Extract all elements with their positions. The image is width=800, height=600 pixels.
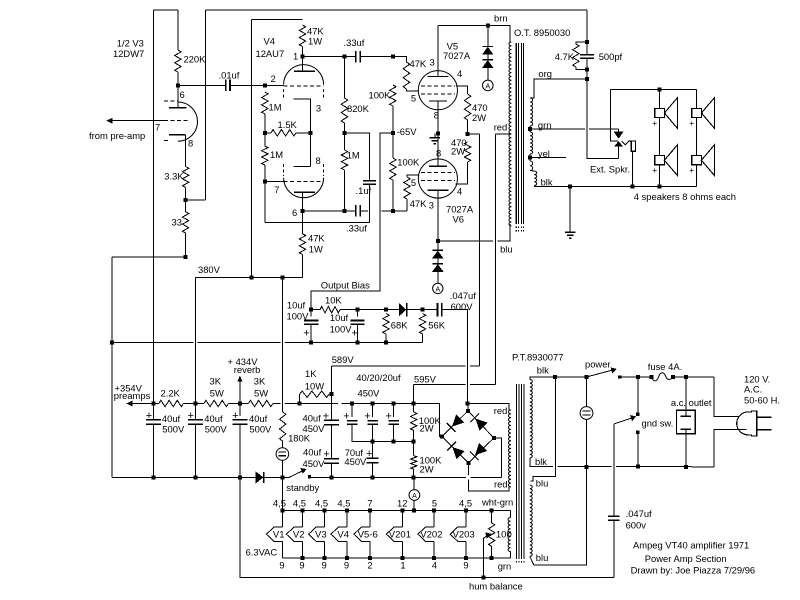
resistor 100K V6 grid leak	[390, 158, 396, 180]
label blu OT	[500, 244, 513, 255]
wire heater bottom bus to PT	[509, 552, 511, 558]
label pin 8 V5	[434, 109, 439, 120]
label .047uf line	[626, 508, 652, 519]
node bias return 10uf2	[355, 340, 359, 344]
wire bridge edge TR	[468, 411, 494, 438]
svg-text:Drawn by: Joe Piazza 7/29/96: Drawn by: Joe Piazza 7/29/96	[631, 565, 756, 576]
svg-text:100K: 100K	[369, 89, 392, 100]
svg-text:Ampeg VT40 amplifier 1971: Ampeg VT40 amplifier 1971	[633, 539, 749, 550]
wire grn short	[529, 126, 531, 132]
tube V4 side dash left upper	[283, 89, 285, 99]
wire 100K lower bottom	[413, 469, 415, 477]
node fuse right	[671, 375, 675, 379]
wire bridge edge BL	[442, 437, 468, 463]
wire V6 plate down	[437, 190, 439, 241]
wire 100K upper leads	[413, 404, 415, 412]
node bridge top vertex	[466, 409, 470, 413]
label 380V	[198, 264, 221, 275]
wire V3 cathode down	[185, 135, 187, 167]
tube V3 cathode bar	[169, 134, 186, 136]
diode V6 sense 1	[433, 251, 443, 258]
node 20uf c mid	[392, 439, 396, 443]
label 2.2K	[161, 388, 181, 399]
label hum balance	[469, 581, 523, 592]
tube V4 side dash right lower	[323, 164, 325, 176]
wire NFB injection	[186, 199, 206, 201]
label A lower	[435, 286, 440, 293]
label 100K V5	[369, 89, 392, 100]
node +434V junction	[238, 402, 242, 406]
svg-text:V202: V202	[420, 529, 442, 540]
svg-text:220K: 220K	[184, 54, 207, 65]
label pin 1 V4	[293, 51, 298, 62]
svg-text:595V: 595V	[414, 373, 437, 384]
wire grn tap right of x587	[589, 128, 618, 130]
wire bridge bottom AC b	[468, 480, 509, 491]
heater V2	[286, 511, 304, 558]
wire 595V stem	[413, 385, 415, 404]
wire V6 grid node to 47K	[393, 210, 407, 212]
wire heater pot bottom	[491, 546, 493, 558]
resistor 220K	[175, 50, 181, 72]
label V5	[447, 40, 458, 51]
node standby bus x=331.7	[330, 475, 334, 479]
node heater top V3	[323, 509, 327, 513]
label wht-grn	[481, 497, 513, 508]
label 7027A V6	[446, 203, 474, 214]
wire heater feed from standby bus	[281, 477, 283, 510]
svg-text:500V: 500V	[162, 424, 185, 435]
resistor 1K 10W	[300, 391, 329, 397]
node 820K/1M junction	[343, 131, 347, 135]
label plus 500V second	[188, 410, 194, 422]
wire 40uf third top	[239, 404, 241, 417]
svg-text:1W: 1W	[309, 244, 323, 255]
svg-text:9: 9	[463, 560, 468, 571]
label A.C.	[744, 384, 762, 395]
wire 10uf first bottom	[310, 324, 312, 342]
label 40uf 500V second a	[204, 413, 223, 424]
wire yel-blk step	[530, 170, 534, 173]
svg-text:5: 5	[411, 177, 416, 188]
label pins 4,5 V4	[337, 497, 350, 508]
node heater bottom V202	[432, 556, 436, 560]
resistor 56K	[419, 314, 425, 335]
label grn heater	[498, 560, 512, 571]
wire 3K junction	[228, 403, 248, 405]
wire AC hot rail c	[673, 376, 714, 378]
wire AC neutral rail c	[616, 466, 714, 468]
wire V6 plate to OT blu right part	[498, 224, 510, 241]
diode bias sense 1	[483, 47, 493, 54]
wire 20uf c top	[393, 404, 395, 418]
svg-text:.047uf: .047uf	[450, 290, 476, 301]
node A heater bus	[412, 509, 416, 513]
wire 589V column	[331, 366, 333, 420]
node fuse left	[650, 375, 654, 379]
wire 220K bottom to plate node	[177, 72, 179, 108]
wire V5 plate to brn	[438, 25, 488, 27]
label reverb	[234, 364, 261, 375]
node blk top junction	[553, 375, 557, 379]
wire heater bottom bus	[282, 557, 510, 559]
lamp standby circle	[276, 448, 289, 461]
wire -65V branch upper	[311, 133, 393, 310]
wire gnd sw pivot down a	[613, 424, 615, 517]
label 1M V4a	[269, 102, 282, 113]
wire pin6 to .33uf	[303, 210, 356, 212]
diode bridge TR	[470, 414, 487, 431]
svg-text:V5-6: V5-6	[358, 529, 378, 540]
svg-text:A.C.: A.C.	[744, 384, 762, 395]
wire +354V arrow lead	[131, 403, 159, 405]
node 595V bus 100K	[412, 402, 416, 406]
svg-text:500V: 500V	[249, 424, 272, 435]
svg-text:100V: 100V	[330, 323, 353, 334]
label 70uf	[345, 447, 364, 458]
wire node2 to 68K	[357, 309, 386, 311]
resistor 47K V6 grid stopper	[404, 177, 410, 199]
label plus 500V first	[146, 410, 152, 422]
node heater top V202	[432, 509, 436, 513]
label pin 5 V6	[411, 177, 416, 188]
label pins 4,5 V203	[459, 497, 472, 508]
label pin 6 V3	[180, 89, 185, 100]
svg-text:V4: V4	[337, 529, 349, 540]
diode bias rectifier bar	[406, 303, 408, 316]
svg-text:V3: V3	[315, 529, 327, 540]
node grn tap	[528, 127, 532, 131]
node V4 pin6	[301, 209, 305, 213]
wire 40uf first bottom	[153, 424, 155, 477]
resistor 3.3K	[182, 167, 188, 188]
svg-text:blu: blu	[500, 244, 513, 255]
svg-text:grn: grn	[498, 560, 512, 571]
svg-text:600V: 600V	[451, 301, 474, 312]
svg-text:8: 8	[434, 109, 439, 120]
svg-text:100: 100	[496, 529, 512, 540]
svg-text:V1: V1	[273, 529, 285, 540]
label blk PT top	[537, 364, 549, 375]
wire 10uf second top	[356, 310, 358, 317]
svg-text:9: 9	[299, 560, 304, 571]
node 595V bus 20uf-1	[350, 402, 354, 406]
svg-text:3K: 3K	[254, 375, 266, 386]
resistor 68K	[383, 314, 389, 335]
wire 10uf first top	[310, 310, 312, 317]
wire NFB riser x=205.7	[205, 10, 207, 200]
svg-text:500V: 500V	[205, 424, 228, 435]
wire pin7 column down	[264, 181, 266, 222]
heater V202	[418, 511, 443, 558]
label 2W V6	[451, 146, 465, 157]
wire yel tap	[530, 156, 566, 158]
node bridge bottom vertex	[466, 461, 470, 465]
wire 1M to pin7	[264, 165, 266, 181]
wire 47K V6 to pin5	[406, 199, 408, 211]
node 595V bus 20uf-2	[371, 402, 375, 406]
resistor 100K V5 grid leak	[390, 85, 396, 106]
outlet inner bar bottom	[680, 428, 691, 430]
label 600V bias	[451, 301, 474, 312]
lamp standby bars	[279, 452, 287, 456]
diode bridge BR	[470, 443, 487, 460]
jack plug barrel	[631, 141, 635, 151]
svg-text:3: 3	[429, 200, 434, 211]
svg-text:12AU7: 12AU7	[256, 48, 285, 59]
svg-text:5W: 5W	[210, 388, 224, 399]
label pin 5 V202	[432, 497, 437, 508]
wire 47K V6 top to pin5	[407, 175, 418, 177]
svg-text:2W: 2W	[451, 146, 465, 157]
label 4.7K	[555, 51, 575, 62]
label Ext. Spkr.	[590, 164, 630, 175]
core OT lines	[516, 43, 523, 224]
node coupling node lower	[343, 209, 347, 213]
capacitor .1uf	[363, 181, 376, 185]
wire bridge top stem	[467, 404, 469, 411]
wire +434V stem	[239, 381, 241, 404]
svg-text:5W: 5W	[254, 388, 268, 399]
wire 4.7K top	[576, 42, 587, 44]
diode bias sense 1 bar	[483, 46, 493, 48]
label A upper	[485, 83, 490, 90]
capacitor .33uf lower	[356, 205, 360, 217]
svg-text:.33uf: .33uf	[346, 223, 367, 234]
capacitor 40uf 500V second	[188, 420, 203, 425]
svg-text:+: +	[323, 411, 329, 423]
label 600v line	[626, 520, 647, 531]
node ground drop junction	[568, 185, 572, 189]
svg-text:100K: 100K	[397, 157, 420, 168]
label 3.3K	[164, 171, 184, 182]
wire 20uf b top	[372, 404, 374, 418]
node outlet feed top	[684, 375, 688, 379]
label .047uf bias	[450, 290, 476, 301]
wire pin7 to .1uf bottom	[265, 221, 370, 223]
wire V4b plate down	[302, 192, 304, 234]
label 40uf upper	[303, 412, 322, 423]
label 40uf lower	[303, 446, 322, 457]
wire 100K V6 bottom	[392, 180, 394, 211]
tube V3 envelope top dash	[164, 100, 178, 102]
svg-text:4,5: 4,5	[459, 497, 472, 508]
node heater bottom V201	[400, 556, 404, 560]
wire bias left lead	[311, 309, 320, 311]
heater V203	[450, 511, 475, 558]
tube V3 grid dashed line	[164, 120, 190, 122]
node V5 grid node	[391, 55, 395, 59]
wire 1M to pin6 wire	[344, 170, 346, 211]
lamp pilot bars	[583, 411, 591, 415]
node bias return left	[110, 340, 114, 344]
wire jack tip stem	[618, 129, 620, 132]
label red PT top	[494, 405, 508, 416]
tube V5 envelope	[418, 71, 457, 110]
wire 20uf b bottom	[372, 424, 374, 458]
node standby bus x=413.7	[412, 475, 416, 479]
outlet inner bar top	[680, 415, 691, 417]
arrow from pre-amp	[107, 118, 113, 123]
label +434V	[228, 356, 259, 367]
wire yel short	[529, 154, 531, 161]
switch gnd contact upper	[636, 413, 639, 416]
label red PT bottom	[494, 479, 508, 490]
label pin 8 V6	[436, 148, 441, 159]
switch standby arm	[289, 470, 304, 477]
tube V6 grid2 dashed	[421, 179, 455, 181]
winding OT primary	[509, 42, 511, 226]
node 4.7K bottom junction	[585, 68, 589, 72]
svg-text:5: 5	[432, 497, 437, 508]
wire V6 diode stack stem2	[437, 258, 439, 264]
label plus 20uf b	[364, 411, 370, 423]
capacitor 40uf 450V upper	[324, 420, 339, 425]
node bias return 10uf1	[309, 340, 313, 344]
heater V4	[331, 511, 349, 558]
node heater top V201	[400, 509, 404, 513]
switch gnd arm	[614, 418, 633, 424]
plug prong top	[757, 416, 772, 418]
node bridge feed	[466, 402, 470, 406]
label pin 8 V3	[188, 138, 193, 149]
heater V5-6	[354, 511, 378, 558]
diode standby bar	[263, 472, 265, 483]
node heater bottom V203	[464, 556, 468, 560]
svg-text:6: 6	[180, 89, 185, 100]
wire 47K to pin1	[302, 47, 304, 72]
svg-text:red: red	[494, 405, 508, 416]
label 1K	[305, 368, 317, 379]
node 820K top	[343, 55, 347, 59]
svg-text:grn: grn	[538, 119, 552, 130]
label 589V	[332, 354, 355, 365]
label pin 7 V5-6	[367, 497, 372, 508]
node standby bus x=372.6	[371, 475, 375, 479]
wire bias return bus seg1	[112, 341, 194, 343]
capacitor .047uf bias	[438, 303, 442, 316]
tube V4a cathode	[294, 99, 311, 133]
wire speaker top bus	[610, 88, 696, 90]
resistor 470 2W V6 screen	[464, 142, 470, 162]
svg-text:blu: blu	[536, 552, 549, 563]
svg-text:V201: V201	[389, 529, 411, 540]
tube V3 plate bar	[169, 107, 187, 109]
label P.T.8930077	[512, 352, 563, 363]
wire grid node to 47K V5	[393, 57, 407, 62]
resistor 100K 2W lower	[411, 456, 417, 470]
winding PT heater right	[530, 485, 532, 556]
label pin 9 V4	[344, 560, 349, 571]
wire lamp to bus	[281, 460, 283, 477]
tube V4 upper dome	[284, 65, 324, 85]
svg-text:+: +	[689, 118, 694, 128]
svg-text:7: 7	[274, 184, 279, 195]
label plus 20uf c	[386, 411, 392, 423]
label 1W V4b	[309, 244, 323, 255]
switch power arm	[587, 370, 614, 377]
label 100K 2W lower a	[420, 455, 443, 466]
resistor 820K	[341, 98, 347, 123]
wire 70uf bottom	[372, 463, 374, 478]
label pin 12 V201	[397, 497, 407, 508]
svg-text:2W: 2W	[420, 422, 434, 433]
label +354V	[115, 383, 143, 394]
wire 47K V4b to 380V bus	[302, 255, 304, 278]
wire 2.2K to 3K	[183, 403, 204, 405]
node 100K mid	[412, 439, 416, 443]
wire 20uf a bottom	[352, 424, 414, 441]
svg-text:+: +	[386, 411, 392, 423]
svg-text:+: +	[652, 165, 657, 175]
arrow power switch	[611, 368, 616, 373]
core PT end dots	[517, 561, 524, 563]
svg-text:380V: 380V	[198, 264, 221, 275]
wire diode stack stem1	[487, 26, 489, 47]
label 470 V5	[472, 102, 488, 113]
heater V1	[266, 511, 284, 558]
label pin 3 V6	[429, 200, 434, 211]
node V4 pin1	[301, 55, 305, 59]
wire pin1 820K column top	[344, 57, 346, 98]
wire speaker bottom bus	[535, 186, 697, 188]
wire V6 diode stack stem3	[437, 272, 439, 284]
wire standby bus seg4	[471, 476, 502, 478]
svg-text:2.2K: 2.2K	[161, 388, 181, 399]
node bias row left	[309, 308, 313, 312]
wire standby bus seg2	[265, 476, 289, 478]
label 1M V4b	[270, 149, 283, 160]
jack shunt arrow up	[615, 141, 623, 146]
svg-text:9: 9	[322, 560, 327, 571]
label 47K V5	[410, 58, 427, 69]
wire .047 to AC leg	[442, 310, 468, 404]
node bias return 68K	[384, 340, 388, 344]
label -65V	[397, 126, 418, 137]
svg-text:a.c. outlet: a.c. outlet	[671, 397, 712, 408]
wire 10K to node2	[340, 309, 357, 311]
winding OT secondary yel-blk	[530, 161, 533, 171]
node bridge right vertex	[492, 436, 496, 440]
svg-text:1M: 1M	[269, 102, 282, 113]
svg-text:+: +	[652, 118, 657, 128]
svg-text:500pf: 500pf	[599, 51, 623, 62]
wire 180K top from 380V	[282, 278, 284, 412]
svg-text:+: +	[364, 411, 370, 423]
wire 56K node to cap	[423, 309, 438, 311]
svg-text:1W: 1W	[308, 36, 322, 47]
node 56K top	[421, 308, 425, 312]
svg-text:2W: 2W	[420, 464, 434, 475]
wire NFB column mid	[586, 58, 588, 70]
label 100V first	[287, 311, 310, 322]
svg-text:.33uf: .33uf	[344, 37, 365, 48]
wire bias return bus seg3	[285, 341, 423, 343]
node heater top V4	[345, 509, 349, 513]
tube V5 grid1 dashed	[421, 85, 455, 87]
label org	[538, 68, 552, 79]
wire PT primary top tap	[530, 377, 555, 380]
svg-text:589V: 589V	[332, 354, 355, 365]
wire screen junction to 589V riser	[468, 133, 480, 135]
wire AC neutral rail b	[558, 466, 612, 468]
label blk PT bottom	[535, 456, 547, 467]
svg-text:40uf: 40uf	[204, 413, 223, 424]
label plus 40uf upper	[323, 411, 329, 423]
diode V6 sense 1 bar	[433, 249, 443, 251]
svg-text:47K: 47K	[308, 232, 325, 243]
svg-text:+: +	[351, 327, 357, 339]
